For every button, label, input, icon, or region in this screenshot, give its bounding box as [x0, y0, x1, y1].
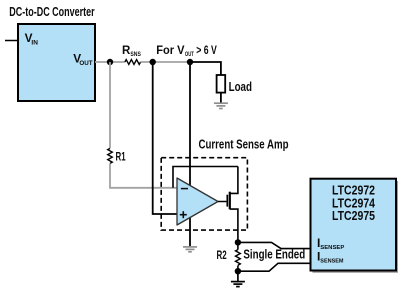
pin label VIN	[25, 31, 38, 47]
svg-text:SENSEM: SENSEM	[320, 259, 344, 265]
wire node C to load corner (black)	[190, 62, 221, 75]
wire R1 to minus input (gray)	[110, 164, 177, 188]
svg-text:SNS: SNS	[130, 51, 141, 58]
transistor Q1 channel bar	[229, 192, 231, 210]
pin label ISENSEP	[317, 236, 345, 251]
LTC block shadow	[313, 181, 399, 273]
transistor Q1 gate lead wire	[218, 201, 226, 203]
pin label VOUT	[73, 51, 93, 67]
transistor Q1 gate bar	[226, 195, 228, 207]
svg-text:Single Ended: Single Ended	[243, 248, 305, 262]
wire load to ground	[220, 93, 222, 103]
wire R2 bottom to ISENSEM pin	[238, 263, 311, 271]
node C junction dot	[187, 59, 193, 65]
op-amp U2 triangle	[177, 178, 218, 225]
pin label ISENSEM	[317, 250, 344, 265]
resistor R2	[236, 242, 241, 271]
output node dot	[235, 239, 241, 245]
svg-text:For V: For V	[156, 45, 185, 57]
op-amp minus sign	[181, 188, 188, 190]
ground under load	[214, 103, 228, 108]
VIN input wire stub	[5, 40, 18, 42]
wire node A down to R1 (gray)	[109, 62, 111, 148]
load resistor box	[217, 75, 226, 93]
resistor R1	[108, 148, 113, 163]
dashed box of current sense amp	[161, 158, 247, 230]
svg-text:Load: Load	[229, 79, 252, 94]
svg-text:Current Sense Amp: Current Sense Amp	[199, 138, 289, 152]
wire node B down to plus input (black)	[153, 62, 177, 214]
label For VOUT > 6 V	[156, 45, 217, 58]
R2 bottom node dot	[235, 268, 241, 274]
feedback rail wire	[173, 167, 238, 188]
svg-text:IN: IN	[31, 40, 38, 47]
node B junction dot	[150, 59, 156, 65]
op-amp plus sign	[180, 211, 187, 218]
svg-text:R2: R2	[217, 248, 227, 262]
DC-to-DC converter block U1	[18, 24, 95, 101]
wire node C down through amp to ground (black)	[189, 62, 191, 247]
transistor Q1 drain lead	[230, 167, 238, 194]
node A junction dot	[107, 59, 113, 65]
wire RSNS to node C (gray)	[141, 61, 190, 63]
wire output node to ISENSEP pin	[238, 242, 311, 248]
ground under R2	[231, 271, 245, 286]
svg-text:LTC2974: LTC2974	[332, 196, 375, 210]
svg-text:DC-to-DC Converter: DC-to-DC Converter	[9, 4, 94, 19]
label RSNS	[122, 45, 141, 58]
svg-text:LTC2975: LTC2975	[332, 209, 375, 223]
svg-text:OUT: OUT	[79, 60, 93, 67]
svg-text:R1: R1	[116, 150, 126, 164]
LTC297x block	[311, 179, 397, 271]
transistor Q1 source lead	[230, 209, 238, 242]
svg-text:OUT: OUT	[185, 51, 194, 58]
wire VOUT to node A (gray)	[95, 61, 125, 63]
svg-text:SENSEP: SENSEP	[320, 245, 344, 251]
resistor RSNS	[125, 60, 141, 65]
svg-text:> 6 V: > 6 V	[196, 45, 217, 57]
svg-text:LTC2972: LTC2972	[332, 183, 375, 197]
ground under op-amp	[183, 247, 197, 252]
